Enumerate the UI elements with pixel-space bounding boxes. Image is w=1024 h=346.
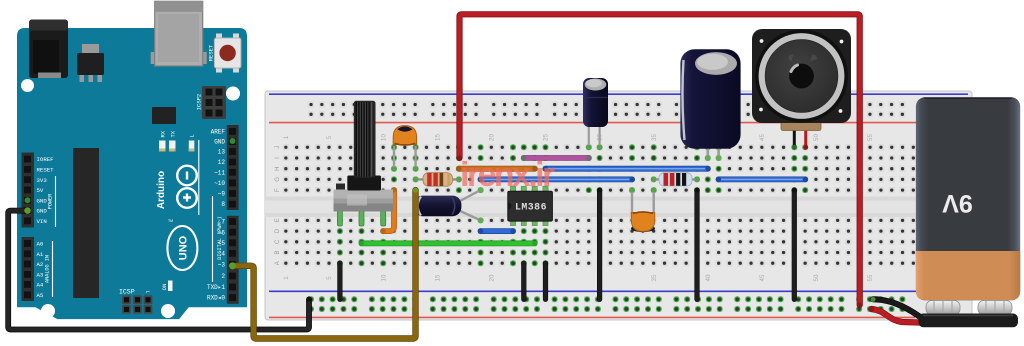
svg-text:AREF: AREF xyxy=(211,129,226,136)
wire black jumper A6 to ground rail xyxy=(337,263,342,299)
top rail blue line xyxy=(269,93,968,95)
svg-text:H: H xyxy=(275,167,281,171)
svg-text:J: J xyxy=(275,146,281,149)
power jack xyxy=(29,20,68,79)
svg-text:10: 10 xyxy=(380,274,387,281)
bottom rail blue line xyxy=(269,290,968,292)
svg-text:POWER: POWER xyxy=(48,194,54,210)
svg-text:B: B xyxy=(275,250,281,254)
svg-text:Arduino: Arduino xyxy=(156,171,167,209)
svg-text:⌐: ⌐ xyxy=(146,289,150,296)
battery BT1 9V xyxy=(916,97,1020,327)
top rail red line xyxy=(269,122,968,124)
svg-text:35: 35 xyxy=(651,274,658,281)
column numbers xyxy=(283,134,928,282)
svg-text:10: 10 xyxy=(380,134,387,141)
svg-text:TM: TM xyxy=(168,219,173,223)
svg-text:VIN: VIN xyxy=(37,218,47,225)
wire blue G19 to G33 xyxy=(481,176,632,182)
wire red supply loop I17 to bottom + rail xyxy=(460,14,860,305)
svg-text:~9: ~9 xyxy=(218,191,226,198)
svg-text:~10: ~10 xyxy=(214,180,225,187)
USB connector xyxy=(151,52,155,64)
wire purple I23 to I29 xyxy=(524,155,589,161)
svg-text:35: 35 xyxy=(651,134,658,141)
svg-text:RESET: RESET xyxy=(37,167,55,174)
svg-text:ICSP2: ICSP2 xyxy=(196,94,203,111)
USB interface chip xyxy=(152,107,176,124)
svg-text:5: 5 xyxy=(326,135,333,139)
svg-text:45: 45 xyxy=(759,134,766,141)
svg-text:L: L xyxy=(189,134,196,137)
svg-text:LM386: LM386 xyxy=(515,202,547,213)
wire black jumper F39 to ground rail xyxy=(694,190,699,299)
mounting holes xyxy=(21,79,34,92)
TX RX L LEDs xyxy=(159,141,166,152)
breadboard xyxy=(265,91,972,320)
bottom rail red line xyxy=(269,316,915,318)
svg-text:5: 5 xyxy=(326,276,333,280)
wire black jumper A25 to ground rail xyxy=(543,263,548,299)
svg-text:RXD◂0: RXD◂0 xyxy=(207,295,225,302)
svg-text:UNO: UNO xyxy=(177,235,189,260)
svg-text:20: 20 xyxy=(489,274,496,281)
svg-text:GND: GND xyxy=(37,208,48,215)
ATmega328 chip xyxy=(73,148,99,298)
wire blue D19 to D22 xyxy=(481,228,513,234)
speaker LS1 xyxy=(752,29,851,150)
svg-text:A5: A5 xyxy=(37,292,44,299)
svg-text:A3: A3 xyxy=(37,272,44,279)
svg-text:2: 2 xyxy=(221,273,225,280)
voltage regulator xyxy=(82,44,99,54)
svg-text:9V: 9V xyxy=(942,189,973,217)
wire black Arduino GND to breadboard ground rail xyxy=(8,211,309,330)
svg-text:irenx.ir: irenx.ir xyxy=(460,156,555,194)
svg-text:55: 55 xyxy=(867,134,874,141)
wire orange F11 to D10 xyxy=(383,190,394,231)
svg-text:3V3: 3V3 xyxy=(37,177,48,184)
svg-text:15: 15 xyxy=(434,134,441,141)
svg-text:A4: A4 xyxy=(37,282,44,289)
svg-text:50: 50 xyxy=(813,134,820,141)
connected hole highlights xyxy=(308,144,905,312)
svg-text:12: 12 xyxy=(218,159,226,166)
svg-text:40: 40 xyxy=(705,274,712,281)
wire red battery to + rail xyxy=(872,309,920,323)
wire black jumper F30 to ground rail xyxy=(597,190,602,299)
svg-text:TXD▸1: TXD▸1 xyxy=(207,284,225,291)
wire black jumper A23 to ground rail xyxy=(521,263,526,299)
svg-text:A1: A1 xyxy=(37,251,44,258)
wire brown Arduino pin3 to F13 xyxy=(232,190,415,338)
Arduino Uno board xyxy=(17,28,247,319)
svg-text:20: 20 xyxy=(489,134,496,141)
capacitor C5 electrolytic xyxy=(414,188,483,223)
wire blue G41 to G49 xyxy=(719,176,806,182)
potentiometer R3 xyxy=(334,101,394,226)
capacitor C3 electrolytic xyxy=(680,49,740,160)
svg-text:GND: GND xyxy=(214,139,225,146)
svg-text:A2: A2 xyxy=(37,261,44,268)
svg-text:25: 25 xyxy=(543,134,550,141)
op-amp U1 LM386 xyxy=(508,186,553,225)
svg-text:F: F xyxy=(275,188,281,192)
wire dark-yellow H17 to H24 xyxy=(459,166,535,172)
svg-text:ICSP: ICSP xyxy=(119,289,135,296)
svg-text:1: 1 xyxy=(283,276,290,280)
svg-text:DIGITAL (PWM~): DIGITAL (PWM~) xyxy=(217,216,223,260)
wire green C8 to C24 xyxy=(362,240,535,246)
ON LED xyxy=(168,281,173,292)
svg-text:D: D xyxy=(275,228,281,233)
row letters xyxy=(275,146,281,265)
digital header xyxy=(227,125,239,210)
svg-text:ON: ON xyxy=(161,284,168,291)
power and analog headers xyxy=(22,153,35,228)
capacitor C2 ceramic xyxy=(630,188,656,232)
wire black jumper F48 to ground rail xyxy=(792,190,797,299)
svg-text:5V: 5V xyxy=(37,187,44,194)
svg-text:RESET: RESET xyxy=(208,44,215,61)
resistor R2 xyxy=(652,173,700,186)
svg-text:GND: GND xyxy=(37,197,48,204)
reset button xyxy=(216,34,222,40)
svg-text:IOREF: IOREF xyxy=(37,156,55,163)
capacitor C1 electrolytic xyxy=(583,78,608,149)
svg-text:8: 8 xyxy=(221,201,225,208)
svg-text:ANALOG IN: ANALOG IN xyxy=(45,255,51,283)
svg-text:50: 50 xyxy=(813,274,820,281)
UNO label xyxy=(167,226,197,270)
svg-text:TX: TX xyxy=(170,130,177,137)
svg-text:1: 1 xyxy=(283,135,290,139)
svg-text:G: G xyxy=(275,177,281,182)
breadboard holes xyxy=(283,102,960,313)
svg-text:13: 13 xyxy=(218,149,226,156)
svg-text:C: C xyxy=(275,239,281,244)
resistor R1 xyxy=(414,173,462,187)
svg-text:~3: ~3 xyxy=(218,262,226,269)
svg-text:45: 45 xyxy=(759,274,766,281)
wire black battery to ground rail xyxy=(873,299,920,316)
svg-text:E: E xyxy=(275,218,281,222)
svg-text:A0: A0 xyxy=(37,241,44,248)
svg-text:A: A xyxy=(275,261,281,265)
wire blue H25 to H40 xyxy=(546,166,708,172)
svg-text:55: 55 xyxy=(867,274,874,281)
svg-text:~11: ~11 xyxy=(214,169,225,176)
ICSP2 header xyxy=(202,86,226,119)
svg-text:RX: RX xyxy=(160,130,167,137)
Arduino logo xyxy=(177,166,197,208)
capacitor C4 ceramic xyxy=(392,126,418,171)
svg-text:15: 15 xyxy=(434,274,441,281)
